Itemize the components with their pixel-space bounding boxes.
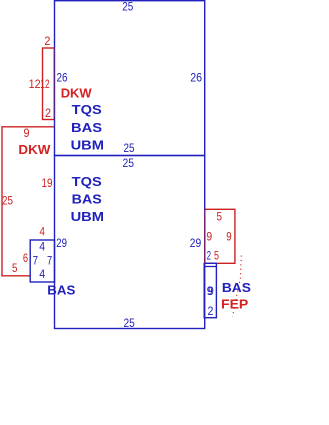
svg-text:5: 5 [214, 250, 219, 262]
svg-text:25: 25 [124, 318, 135, 330]
svg-text:9: 9 [208, 286, 214, 298]
svg-text:5: 5 [217, 212, 223, 224]
svg-text:BAS: BAS [72, 192, 102, 207]
left blue bump box [30, 240, 54, 282]
svg-text:26: 26 [57, 72, 68, 84]
svg-text:2: 2 [44, 36, 50, 48]
svg-text:9: 9 [24, 128, 30, 140]
right red addition box [205, 209, 235, 263]
svg-text:19: 19 [42, 178, 53, 190]
left red addition outline [2, 127, 55, 276]
svg-text:29: 29 [190, 238, 201, 250]
red overlap on right wall (shared with right red box) [204, 209, 206, 263]
top blue rectangle [55, 1, 205, 156]
right blue bump box [204, 263, 216, 317]
svg-text:6: 6 [23, 253, 28, 265]
svg-text:29: 29 [56, 238, 67, 250]
inner blue line (FEP top) [204, 266, 216, 268]
red overlap on left wall (shared with upper-left red box) [53, 48, 55, 120]
svg-text:7: 7 [47, 256, 52, 268]
svg-text:25: 25 [123, 158, 135, 170]
svg-text:9: 9 [206, 232, 212, 244]
svg-text:2: 2 [45, 108, 51, 120]
red dashed line [233, 256, 242, 317]
svg-text:DKW: DKW [18, 142, 51, 157]
svg-text:26: 26 [190, 72, 202, 84]
svg-text:UBM: UBM [71, 137, 104, 152]
bottom blue rectangle [55, 156, 205, 329]
svg-text:5: 5 [12, 263, 18, 275]
svg-text:TQS: TQS [72, 102, 102, 117]
svg-text:4: 4 [40, 226, 46, 238]
svg-text:4: 4 [39, 269, 45, 281]
svg-text:DKW: DKW [61, 85, 93, 100]
svg-text:25: 25 [2, 195, 13, 207]
svg-text:25: 25 [122, 1, 133, 13]
svg-text:7: 7 [33, 256, 38, 268]
svg-text:BAS: BAS [71, 120, 102, 135]
svg-text:12: 12 [29, 79, 41, 91]
svg-text:12: 12 [40, 79, 49, 91]
svg-text:UBM: UBM [71, 209, 104, 224]
svg-text:2: 2 [207, 250, 211, 262]
svg-text:2: 2 [208, 306, 214, 318]
svg-text:BAS: BAS [47, 283, 75, 298]
svg-text:25: 25 [124, 143, 135, 155]
upper-left red addition box [43, 48, 55, 120]
svg-text:FEP: FEP [221, 297, 249, 312]
svg-text:BAS: BAS [222, 280, 251, 295]
svg-text:TQS: TQS [72, 174, 102, 189]
svg-text:9: 9 [226, 232, 231, 244]
svg-text:4: 4 [39, 241, 45, 253]
